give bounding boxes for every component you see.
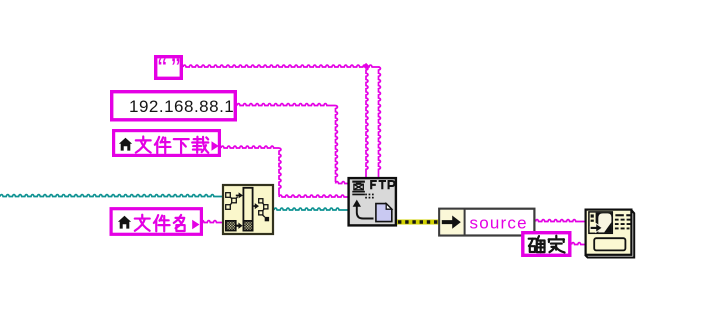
string constant "" (empty string) (156, 53, 185, 83)
svg-text:192.168.88.1: 192.168.88.1 (129, 97, 234, 116)
wire: empty-string constant to FTP (horizontal run) (183, 65, 380, 67)
Unbundle By Name: field "source" (439, 209, 534, 236)
wire: 确定 constant to One Button Dialog (572, 243, 585, 245)
string constant 确定 (OK) (523, 233, 570, 256)
wire: enum constant 文件下载 to FTP left input (221, 146, 348, 197)
wire: vertical branch 2 down to FTP top input (379, 67, 381, 178)
function: One Button Dialog (585, 210, 634, 258)
string constant 192.168.88.1 (112, 92, 236, 120)
ring constant 文件下载 (114, 131, 220, 156)
wire: IP string constant to FTP left input (237, 104, 348, 184)
wire: source string to One Button Dialog (536, 220, 585, 222)
junction dot on empty-string wire (363, 63, 370, 70)
wire: teal path wire U1 output to FTP node (274, 208, 348, 210)
wire: constant 文件名 to U1 input (201, 221, 223, 223)
svg-text:“”: “” (158, 53, 185, 83)
svg-text:source: source (470, 213, 528, 232)
wire: teal path wire from left edge into U1 (0, 195, 222, 197)
ring constant 文件名 (111, 209, 201, 235)
wire: error cluster wire FTP output to Unbundle By Name (396, 220, 439, 225)
VI node FTP retrieve (349, 178, 396, 225)
wire: vertical branch 1 down to FTP top input (366, 67, 368, 178)
subVI U1 (list/path builder icon) (223, 185, 273, 234)
